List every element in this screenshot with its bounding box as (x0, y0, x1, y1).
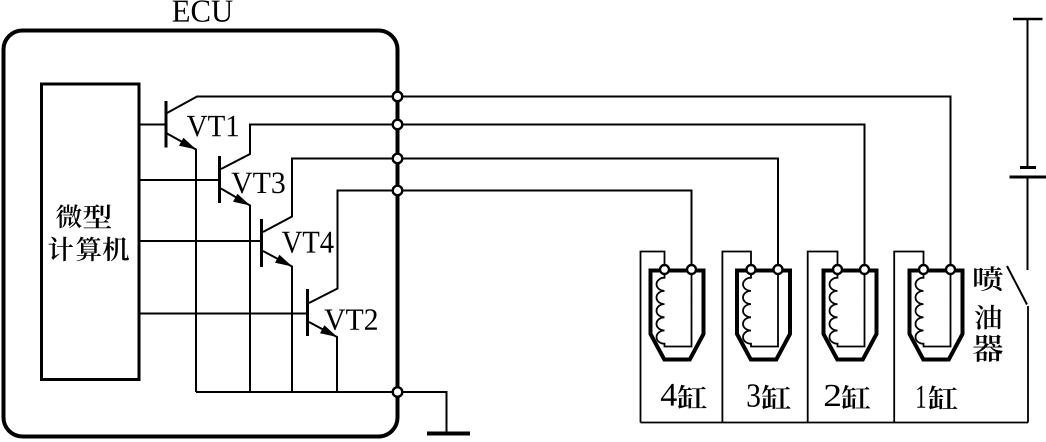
ground (427, 432, 470, 436)
node: emitter bus output (393, 387, 403, 397)
label ECU (173, 0, 233, 22)
arrow VT1 emitter (179, 138, 196, 150)
label 4缸 (661, 384, 677, 406)
wire: VT4 collector to injector 3缸 (263, 159, 778, 266)
wire: supply riser to injector 3缸 (722, 252, 751, 423)
wire: supply riser to injector 1缸 (894, 252, 923, 423)
label 微型 (56, 204, 81, 228)
wire: microcomputer to VT1 base (138, 124, 166, 126)
wire: VT1 collector to injector 1缸 (167, 97, 951, 266)
transistor VT4 base bar (260, 219, 263, 267)
wire: microcomputer to VT3 base (138, 179, 220, 181)
wire: VT3 collector to injector 2缸 (221, 125, 865, 266)
wire: microcomputer to VT4 base (138, 240, 262, 242)
wire: VT4 emitter (263, 251, 292, 392)
wire: supply riser to injector 4缸 (641, 252, 665, 423)
wire: VT3 emitter (221, 189, 250, 393)
node: ECU output 3 (393, 154, 403, 164)
label VT2 (325, 309, 377, 330)
node: ECU output 1 (393, 92, 403, 102)
wire: supply riser to injector 2缸 (808, 252, 838, 423)
injector 1缸 (910, 264, 963, 360)
arrow VT2 emitter (320, 325, 337, 337)
label 3缸 (748, 384, 760, 407)
wire: switch to battery (1027, 177, 1029, 270)
wire: bus to ground (398, 392, 447, 432)
wire: microcomputer to VT2 base (138, 313, 308, 315)
label 2缸 (825, 385, 840, 406)
label 1缸 (917, 386, 925, 408)
injector 4缸 (651, 264, 704, 360)
label VT1 (187, 116, 238, 137)
injector 2缸 (824, 264, 877, 360)
label VT3 (232, 172, 285, 193)
transistor VT3 base bar (218, 156, 221, 203)
wire: VT2 collector to injector 4缸 (309, 191, 692, 304)
transistor VT1 base bar (165, 101, 168, 148)
arrow VT4 emitter (275, 255, 292, 267)
battery positive plate (1010, 176, 1046, 179)
label 计算机 (48, 237, 73, 262)
node: ECU output 2 (393, 120, 403, 130)
wire: battery to top terminal (1027, 19, 1029, 168)
label VT4 (282, 232, 334, 253)
battery top terminal bar (1013, 18, 1043, 21)
switch blade (1007, 266, 1027, 305)
wire: supply bus to switch (1027, 306, 1029, 423)
wire: emitter bus (196, 391, 398, 393)
wire: VT1 emitter (167, 134, 196, 393)
ECU enclosure box (4, 31, 398, 437)
injector 3缸 (737, 264, 790, 360)
wire: VT2 emitter (309, 322, 337, 392)
arrow VT3 emitter (233, 194, 250, 206)
battery negative plate (1020, 166, 1036, 169)
microcomputer box (42, 84, 140, 380)
node: ECU output 4 (393, 186, 403, 196)
wire: bottom supply bus (641, 422, 1029, 424)
transistor VT2 base bar (306, 289, 309, 336)
label 喷油器 (974, 266, 1003, 291)
